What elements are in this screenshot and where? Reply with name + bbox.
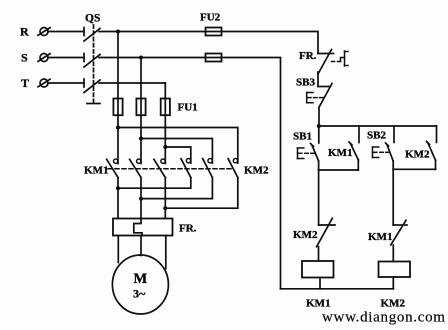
wire right block to interlock (392, 169, 394, 225)
wire FR to motor V (140, 236, 142, 256)
wire R to QS (48, 31, 84, 33)
node L1 junction dot (116, 30, 120, 34)
fuse FU1 pole 1 (113, 99, 122, 116)
node V dot (139, 197, 143, 201)
fuse FU1 pole 2 (136, 99, 145, 116)
svg-text:M: M (134, 271, 148, 287)
stop button SB3 actuator (307, 93, 323, 103)
motor M circle (112, 255, 168, 314)
wire V to FR (140, 178, 142, 219)
start button SB1 actuator (298, 148, 315, 159)
start button SB2 NO (386, 126, 395, 169)
wire L2 below FU1 (140, 115, 142, 163)
wire below contact KM2-3 to W (165, 178, 238, 209)
terminal S (38, 54, 50, 62)
wire S from QS to FU2 (99, 57, 222, 59)
thermal contact FR NC (318, 50, 334, 87)
wire L3 below FU1 (164, 115, 166, 163)
wire L1 below FU1 (117, 115, 119, 163)
wire FR to motor W (165, 236, 167, 269)
terminal R (38, 28, 50, 36)
aux contact KM1 NO (349, 126, 359, 170)
node SB1 top dot (317, 124, 321, 128)
svg-text:SB2: SB2 (367, 130, 386, 142)
wire below contact KM2-1 to U (118, 178, 191, 189)
coil KM1 box (302, 261, 334, 278)
switch QS linkage (87, 25, 100, 104)
contact KM2-1 (181, 159, 191, 178)
control bottom rail (281, 288, 394, 290)
svg-text:www.diangon.com: www.diangon.com (322, 310, 446, 326)
thermal relay FR box (113, 219, 173, 236)
wire R from FU2 to control drop (222, 32, 319, 54)
contact KM2-3 (228, 159, 238, 178)
wire L3 to KM2 contact 4 (165, 147, 191, 163)
svg-text:FR.: FR. (179, 223, 197, 235)
fuse FU2 upper (206, 28, 222, 36)
start button SB1 NO (311, 126, 319, 170)
svg-text:KM2: KM2 (244, 165, 269, 177)
linkage dashes KM1 KM2 (108, 168, 233, 170)
svg-text:KM1: KM1 (306, 298, 330, 310)
wire S from FU2 to left rail (222, 58, 281, 289)
svg-text:KM1: KM1 (368, 231, 392, 243)
wire T from QS to L3 (99, 82, 165, 84)
wire left block to interlock (318, 170, 320, 225)
wire W to FR (164, 178, 166, 219)
contact KM1-2 (130, 159, 141, 177)
svg-text:FU2: FU2 (200, 12, 221, 24)
svg-text:FR.: FR. (299, 50, 317, 62)
svg-text:SB1: SB1 (293, 131, 312, 143)
svg-text:KM2: KM2 (381, 298, 406, 310)
node L1 branch dot (116, 126, 120, 130)
wire T to QS (48, 82, 84, 84)
svg-text:3~: 3~ (133, 287, 146, 301)
terminal T (38, 79, 50, 87)
switch QS pole 2 (84, 54, 100, 68)
svg-text:KM2: KM2 (293, 229, 318, 241)
fuse FU1 pole 3 (161, 99, 170, 116)
svg-text:KM1: KM1 (84, 165, 108, 177)
svg-text:FU1: FU1 (178, 102, 198, 114)
wire L1 drop to FU1 (117, 32, 119, 116)
contact KM1-1 (107, 159, 118, 177)
wire L1 to KM2 contact 6 (118, 128, 238, 164)
wire S to QS (48, 57, 84, 59)
switch QS pole 1 (84, 28, 100, 42)
thermal contact FR trip symbol (332, 51, 349, 66)
wire L2 drop to FU1 (140, 58, 142, 116)
svg-text:R: R (20, 25, 29, 39)
node L3 branch dot (163, 145, 167, 149)
node W dot (163, 206, 167, 210)
contact KM1-3 (154, 159, 165, 177)
svg-text:KM1: KM1 (328, 147, 352, 159)
interlock contact KM1 NC (391, 220, 407, 261)
node L2 branch dot (139, 137, 143, 141)
wire L3 drop to FU1 (164, 83, 166, 115)
wire below contact KM2-2 to V (141, 178, 212, 199)
wire L2 to KM2 contact 5 (141, 139, 212, 164)
right block bottom rail (393, 168, 435, 170)
switch QS pole 3 (84, 79, 100, 93)
control top rail (318, 125, 437, 127)
coil KM2 box (379, 262, 411, 278)
node L2 junction dot (139, 56, 143, 60)
svg-text:QS: QS (85, 13, 100, 25)
coil KM1 bottom wire (319, 278, 321, 289)
thermal relay FR heater (134, 219, 142, 236)
aux contact KM2 NO (427, 126, 437, 169)
svg-text:KM2: KM2 (405, 149, 430, 161)
start button SB2 actuator (373, 147, 390, 158)
wire U to FR (117, 178, 119, 219)
wire FR to motor U (117, 236, 119, 263)
fuse FU2 lower (206, 54, 222, 62)
left block bottom rail (319, 169, 359, 171)
svg-text:SB3: SB3 (296, 77, 315, 89)
svg-text:T: T (21, 76, 29, 90)
coil KM2 bottom wire (392, 277, 394, 289)
interlock contact KM2 NC (317, 218, 335, 261)
contact KM2-2 (203, 159, 213, 178)
wire R from QS to FU2 (99, 31, 222, 33)
svg-text:S: S (21, 51, 28, 65)
stop button SB3 NC (318, 84, 332, 127)
node U dot (116, 186, 120, 190)
